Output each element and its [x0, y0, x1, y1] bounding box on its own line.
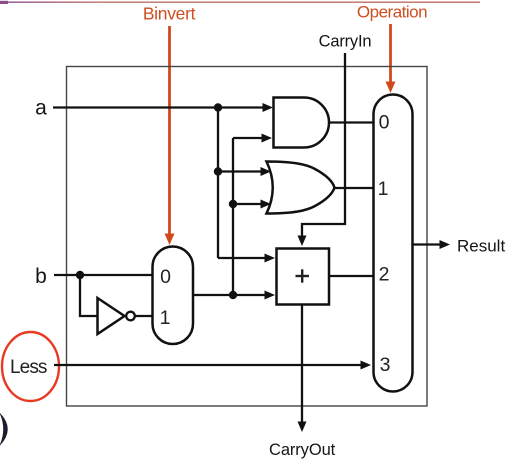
node b-mux to OR in2	[229, 200, 237, 208]
svg-text:CarryIn: CarryIn	[319, 33, 372, 51]
svg-text:1: 1	[378, 178, 389, 200]
adder U1	[277, 249, 330, 305]
wire b-mux vertical distribution	[232, 138, 234, 295]
wire AND out to mux 0	[329, 121, 374, 123]
node a to OR in1	[214, 167, 222, 175]
svg-text:CarryOut: CarryOut	[269, 441, 336, 459]
Operation mux	[374, 95, 413, 392]
inverter NOT gate	[98, 298, 125, 334]
svg-text:Result: Result	[457, 237, 505, 256]
svg-text:0: 0	[160, 266, 171, 288]
wire Result output	[412, 240, 450, 249]
wire inverter to mux 1	[135, 315, 153, 317]
ALU outer box	[67, 67, 428, 407]
slide top rule line	[8, 1, 480, 3]
node b junction	[76, 271, 84, 279]
svg-text:b: b	[35, 265, 47, 288]
wire adder CarryOut	[301, 305, 303, 423]
svg-text:Less: Less	[10, 357, 47, 378]
wire CarryIn arrow into adder	[298, 236, 307, 247]
svg-text:0: 0	[379, 112, 390, 134]
wire Less to mux 3	[54, 361, 371, 370]
Binvert control arrow	[165, 26, 175, 245]
Operation control arrow	[386, 24, 396, 93]
wire b-mux to OR in2	[233, 200, 271, 209]
svg-text:a: a	[35, 97, 47, 120]
wire OR out to mux 1	[334, 187, 374, 189]
svg-text:1: 1	[160, 307, 171, 329]
stray text fragment close-paren	[0, 412, 8, 447]
wire a to OR in1	[218, 167, 271, 176]
svg-text:2: 2	[379, 264, 390, 286]
wire a input	[53, 103, 273, 112]
svg-text:Binvert: Binvert	[143, 4, 196, 24]
wire b input	[54, 274, 153, 276]
wire b-mux out to adder in2	[193, 291, 275, 300]
Binvert mux	[153, 247, 194, 345]
svg-text:3: 3	[380, 354, 391, 376]
wire a to adder in1	[218, 254, 275, 263]
wire a vertical distribution	[217, 108, 219, 259]
annotation red ellipse around Less	[2, 332, 59, 401]
svg-text:Operation: Operation	[357, 3, 427, 22]
AND gate	[274, 98, 330, 148]
wire CarryOut arrow	[298, 422, 307, 433]
wire b-mux to AND in2	[233, 134, 272, 143]
inverter bubble	[126, 312, 135, 321]
node b-mux out junction	[229, 291, 237, 299]
wire b to inverter	[80, 275, 97, 316]
adder plus sign	[296, 269, 310, 282]
wire adder out to mux 2	[329, 275, 374, 277]
slide top accent bar	[0, 1, 8, 4]
node a junction (AND in1)	[214, 103, 222, 111]
wire CarryIn	[302, 53, 345, 236]
OR gate	[267, 162, 335, 214]
